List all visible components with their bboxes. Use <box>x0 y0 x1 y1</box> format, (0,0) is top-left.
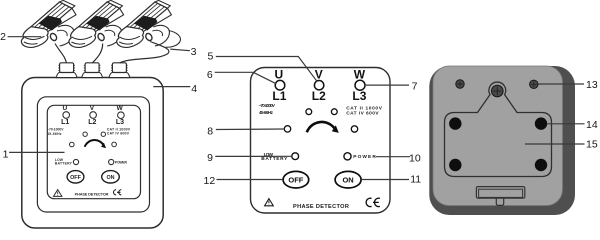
callout 7 <box>366 84 409 86</box>
terminal 2 <box>82 63 103 78</box>
terminal 3 <box>109 63 130 78</box>
svg-text:L2: L2 <box>312 89 326 103</box>
callout 1 <box>9 151 64 153</box>
svg-text:45-66Hz: 45-66Hz <box>259 110 274 115</box>
figure 1 tester body <box>22 78 163 229</box>
svg-text:14: 14 <box>586 119 598 131</box>
svg-text:9: 9 <box>207 152 213 164</box>
svg-text:ON: ON <box>106 175 114 181</box>
svg-text:BATTERY: BATTERY <box>55 162 73 166</box>
figure 3 back housing side wall <box>429 66 575 215</box>
svg-text:L2: L2 <box>88 119 96 126</box>
callout 3 <box>170 49 190 51</box>
svg-text:L3: L3 <box>352 89 366 103</box>
clip 3 tail loop <box>166 31 181 48</box>
fig1 power LED <box>109 159 114 164</box>
callout 11 <box>361 179 409 181</box>
fig3 magnet top-right <box>535 117 547 129</box>
svg-text:ON: ON <box>342 176 353 185</box>
svg-text:U: U <box>274 68 283 82</box>
svg-text:OFF: OFF <box>288 176 303 185</box>
fig2 LED W <box>355 80 365 90</box>
svg-text:12: 12 <box>204 175 216 187</box>
callout 14 <box>547 123 584 125</box>
fig3 screw center <box>492 85 504 97</box>
svg-text:POWER: POWER <box>115 160 128 164</box>
callout 2 <box>8 36 42 38</box>
figure 1 panel inner <box>47 105 140 198</box>
fig2 low battery LED <box>292 153 299 160</box>
svg-text:13: 13 <box>586 79 598 91</box>
svg-text:L3: L3 <box>116 119 124 126</box>
fig3 stand slot outer <box>476 187 524 199</box>
fig3 magnet bottom-right <box>535 159 547 171</box>
clip 3 <box>117 0 172 47</box>
terminal 1 <box>56 63 77 78</box>
svg-text:U: U <box>62 105 67 112</box>
fig3 magnet bottom-left <box>449 159 461 171</box>
svg-text:W: W <box>117 105 124 112</box>
svg-text:PHASE DETECTOR: PHASE DETECTOR <box>293 204 349 210</box>
fig1 indicator circle right <box>112 142 117 147</box>
fig2 indicator circle top-left <box>306 109 312 115</box>
fig1 OFF button <box>67 171 84 183</box>
svg-text:15: 15 <box>586 139 598 151</box>
fig1 rotation arrow <box>85 140 104 147</box>
callout 5 <box>216 57 317 82</box>
callout 15 <box>525 143 585 145</box>
fig1 warning triangle <box>54 190 62 197</box>
figure 3 back face <box>433 66 563 206</box>
fig3 battery cover outline <box>445 82 552 176</box>
fig1 ON button <box>102 171 120 183</box>
svg-text:1: 1 <box>3 148 9 160</box>
callout 10 <box>376 156 410 158</box>
fig1 indicator circle top-left <box>83 132 87 136</box>
figure 2 front panel <box>251 68 391 214</box>
svg-text:11: 11 <box>410 174 421 186</box>
fig1 LED W <box>118 112 125 119</box>
svg-text:POWER: POWER <box>353 154 376 160</box>
fig3 stand slot inner <box>479 189 523 197</box>
svg-text:CAT IV 600V: CAT IV 600V <box>346 111 379 117</box>
fig2 rotation arrow <box>307 122 336 132</box>
fig3 screw right <box>530 80 538 88</box>
fig1 LED V <box>90 112 97 119</box>
svg-text:V: V <box>90 105 95 112</box>
figure 1 panel outer <box>37 97 149 212</box>
fig1 LED U <box>63 112 70 119</box>
fig2 ON button <box>335 171 361 188</box>
svg-text:4: 4 <box>191 83 197 95</box>
fig2 indicator circle right <box>351 126 357 132</box>
fig1 low battery LED <box>73 159 78 164</box>
wire 1 <box>55 44 66 63</box>
svg-text:CAT IV 600V: CAT IV 600V <box>107 131 130 135</box>
fig3 screw left <box>456 80 464 88</box>
clip 2 <box>69 0 124 47</box>
fig1 indicator circle left <box>70 142 75 147</box>
callout 12 <box>217 179 283 181</box>
svg-text:5: 5 <box>207 51 213 63</box>
svg-text:7: 7 <box>412 81 418 93</box>
fig2 CE mark <box>366 198 380 206</box>
wire 3 <box>120 42 169 63</box>
callout 9 <box>215 155 291 157</box>
fig2 power LED <box>344 153 351 160</box>
fig1 CE mark <box>114 190 122 195</box>
fig2 warning triangle <box>265 199 274 206</box>
fig2 LED V <box>314 81 323 90</box>
fig2 indicator circle left <box>284 126 290 132</box>
fig2 indicator circle top-right <box>331 109 337 115</box>
svg-text:6: 6 <box>207 69 213 81</box>
fig1 indicator circle top-right <box>101 132 105 136</box>
svg-text:2: 2 <box>0 31 6 43</box>
svg-text:3: 3 <box>191 46 197 58</box>
callout 4 <box>153 86 190 88</box>
svg-text:45-66Hz: 45-66Hz <box>47 132 62 136</box>
svg-text:L1: L1 <box>272 89 286 103</box>
fig3 magnet top-left <box>449 117 461 129</box>
clip 1 <box>21 0 76 47</box>
svg-text:OFF: OFF <box>70 175 81 181</box>
callout 8 <box>216 128 285 131</box>
fig2 OFF button <box>283 171 309 188</box>
svg-text:L1: L1 <box>61 119 69 126</box>
svg-text:~70-1000V: ~70-1000V <box>259 103 276 108</box>
svg-text:8: 8 <box>207 125 213 137</box>
wire 2 <box>93 44 103 63</box>
callout 6 <box>215 72 277 84</box>
callout 13 <box>539 83 585 85</box>
fig2 LED U <box>275 80 285 90</box>
fig3 hanger tab <box>496 198 503 205</box>
svg-text:PHASE DETECTOR: PHASE DETECTOR <box>75 192 109 197</box>
svg-text:10: 10 <box>409 152 421 164</box>
